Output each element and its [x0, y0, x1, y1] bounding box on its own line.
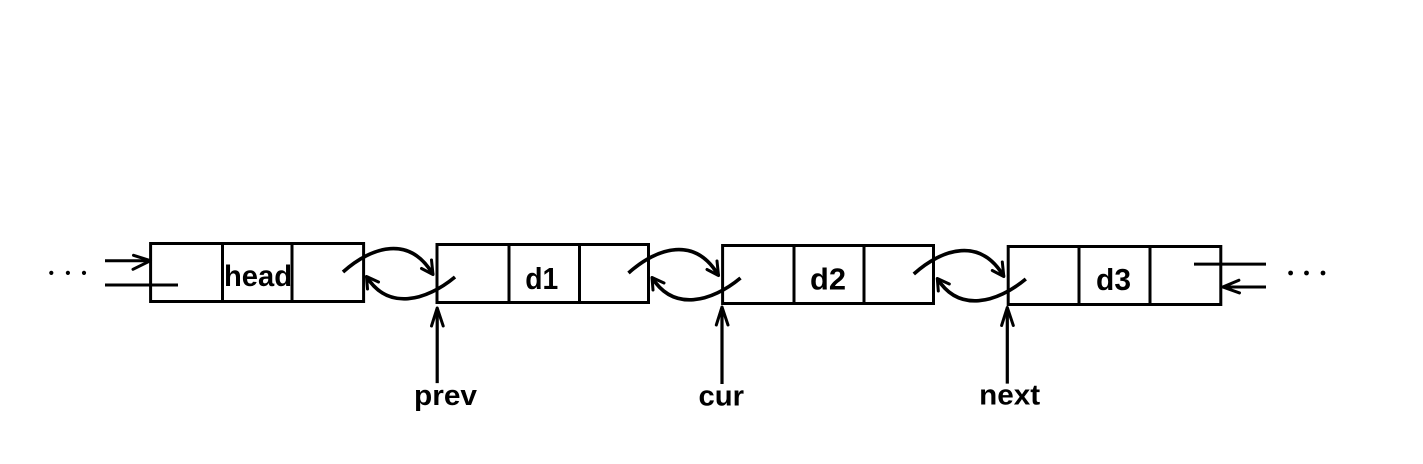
- svg-text:prev: prev: [414, 380, 477, 412]
- svg-text:d1: d1: [525, 261, 558, 296]
- svg-text:d2: d2: [810, 262, 846, 297]
- svg-text:next: next: [979, 380, 1040, 412]
- svg-text:d3: d3: [1096, 262, 1131, 297]
- svg-text:head: head: [224, 260, 292, 293]
- svg-text:cur: cur: [699, 380, 745, 412]
